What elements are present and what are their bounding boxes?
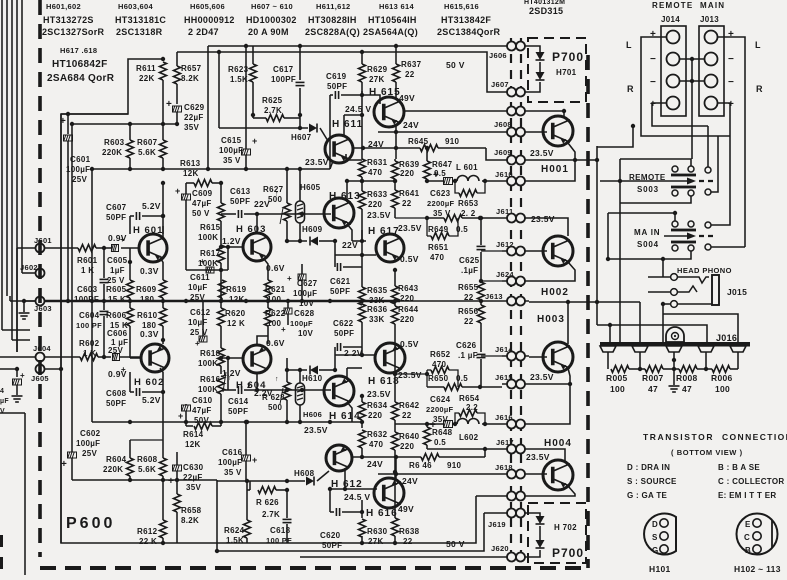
diode H702b [536, 540, 545, 548]
wire H602 collector [140, 329, 165, 344]
svg-text:12K: 12K [229, 295, 245, 304]
svg-text:R639: R639 [399, 160, 420, 169]
jack J015 [671, 274, 719, 308]
svg-text:C617: C617 [273, 65, 294, 74]
svg-text:+: + [287, 274, 292, 283]
capacitor C617 [271, 44, 305, 115]
resistor R632 [359, 430, 388, 449]
wire C610 row [183, 404, 223, 449]
svg-text:C624: C624 [430, 395, 451, 404]
wire H613 collector [330, 95, 349, 202]
wire H613 base [290, 212, 331, 216]
label 2.2V low [247, 383, 273, 398]
transistor H002 [543, 236, 573, 266]
svg-text:47µF: 47µF [192, 199, 212, 208]
svg-text:R611: R611 [136, 64, 156, 73]
capacitor C610 [178, 396, 213, 426]
resistor R639 [392, 159, 420, 181]
label H604 [236, 380, 266, 391]
svg-text:100K: 100K [198, 385, 218, 394]
wire J612 stub [481, 250, 502, 252]
resistor R643 [392, 268, 419, 304]
svg-text:35V: 35V [184, 123, 199, 132]
speaker strip lugs [600, 346, 746, 352]
svg-text:H102 ~ 113: H102 ~ 113 [734, 564, 781, 574]
speaker strip mount [666, 327, 684, 342]
label H001 [541, 164, 569, 175]
svg-text:35 V: 35 V [223, 156, 241, 165]
resistor R628 [262, 358, 291, 422]
resistor R608 [137, 440, 167, 482]
connector J612 [496, 240, 529, 256]
svg-text:C620: C620 [320, 531, 341, 540]
wire y490 row [247, 481, 289, 519]
svg-text:+: + [728, 99, 734, 110]
svg-text:23.5V: 23.5V [398, 223, 422, 233]
svg-text:+: + [252, 455, 258, 465]
wire left bends [0, 330, 36, 575]
svg-text:+: + [433, 170, 439, 181]
label 24V low [367, 459, 383, 469]
transistor H618 [375, 343, 405, 373]
wire H604 base [221, 356, 243, 378]
capacitor C604 [76, 301, 109, 357]
svg-text:H 702: H 702 [554, 523, 577, 532]
svg-text:+: + [60, 116, 66, 127]
resistor R636 [359, 301, 388, 324]
svg-text:4: 4 [0, 388, 4, 395]
svg-text:2.2: 2.2 [466, 403, 478, 412]
svg-text:R608: R608 [137, 455, 158, 464]
wire y114 [61, 57, 165, 114]
svg-text:100: 100 [715, 384, 730, 394]
svg-text:+: + [178, 411, 184, 421]
svg-text:22µF: 22µF [184, 113, 204, 122]
svg-text:H608: H608 [294, 469, 315, 478]
resistor R644 [392, 301, 419, 374]
svg-text:TRANSISTOR: TRANSISTOR [643, 432, 714, 442]
svg-text:R609: R609 [136, 285, 157, 294]
svg-text:H607: H607 [291, 133, 312, 142]
connector J620 [491, 544, 529, 562]
svg-text:HT313272S: HT313272S [43, 15, 94, 25]
switch S003 contacts [664, 166, 713, 196]
svg-text:R645: R645 [408, 137, 429, 146]
label legend E [718, 491, 776, 500]
svg-text:R657: R657 [181, 64, 202, 73]
capacitor C612 [188, 301, 211, 348]
wire speaker L feed [597, 124, 635, 147]
label H602 [134, 377, 164, 388]
svg-text:HT10564IH: HT10564IH [368, 15, 417, 25]
resistor R637 [393, 44, 422, 98]
svg-text:R621: R621 [265, 285, 286, 294]
wire H603 collector [255, 212, 290, 233]
transistor H615 [374, 97, 502, 127]
resistor R622 [265, 301, 286, 336]
svg-text:C611: C611 [190, 273, 210, 282]
svg-text:H 613: H 613 [329, 191, 361, 202]
resistor R646 [409, 449, 485, 470]
resistor R607 [137, 124, 167, 169]
svg-text:+: + [175, 186, 181, 196]
svg-text:R623: R623 [228, 65, 249, 74]
resistor R005 [606, 366, 629, 395]
label HEADPHONO [677, 266, 732, 275]
svg-text:R644: R644 [398, 305, 419, 314]
svg-text:50PF: 50PF [106, 213, 126, 222]
label legend C [718, 477, 784, 486]
svg-text:R 626: R 626 [256, 498, 279, 507]
svg-text:R619: R619 [226, 285, 247, 294]
svg-text:+: + [120, 235, 125, 244]
diode H701b [536, 72, 545, 80]
label H102 [734, 564, 781, 574]
label 49V low [398, 504, 414, 514]
inductor L601 [456, 163, 502, 183]
svg-text:+: + [650, 29, 656, 40]
svg-text:2SC1384QorR: 2SC1384QorR [437, 27, 501, 37]
svg-text:R634: R634 [367, 401, 388, 410]
svg-text:L 601: L 601 [456, 163, 478, 172]
svg-text:H 617: H 617 [368, 226, 400, 237]
resistor R616 [198, 372, 232, 404]
connector J602 [20, 263, 45, 278]
svg-text:J604: J604 [33, 344, 51, 353]
label H603 [236, 224, 266, 235]
svg-text:R625: R625 [262, 96, 283, 105]
svg-text:100 PF: 100 PF [266, 536, 292, 545]
connector J618 [495, 463, 529, 479]
resistor R603 [102, 124, 134, 169]
svg-text:22: 22 [405, 70, 415, 79]
svg-text:R618: R618 [200, 349, 221, 358]
svg-text:R008: R008 [676, 373, 698, 383]
svg-text:R602: R602 [79, 339, 100, 348]
svg-text:2SC1318R: 2SC1318R [116, 27, 163, 37]
resistor R623 [228, 46, 257, 115]
svg-text:J615: J615 [495, 373, 513, 382]
svg-text:MA IN: MA IN [634, 228, 660, 237]
svg-text:100: 100 [267, 295, 281, 304]
svg-text:J609: J609 [494, 148, 512, 157]
resistor R647 [424, 146, 453, 183]
svg-text:R605: R605 [106, 285, 127, 294]
transistor H601 [139, 234, 167, 262]
wire J616 left [395, 422, 435, 426]
svg-text:47: 47 [648, 384, 658, 394]
connector J605 [31, 365, 49, 384]
wire ground bus [44, 299, 502, 303]
label P600 [66, 515, 115, 532]
svg-text:−: − [728, 54, 734, 65]
label H614 [329, 411, 361, 422]
pinout H102 [737, 514, 778, 556]
svg-text:50PF: 50PF [106, 399, 126, 408]
label J014 [661, 15, 680, 24]
svg-text:22: 22 [464, 317, 474, 326]
svg-text:C616: C616 [222, 448, 243, 457]
dashed border right [586, 55, 590, 568]
svg-text:1.5K: 1.5K [226, 536, 244, 545]
svg-text:R647: R647 [432, 160, 453, 169]
svg-text:2SA564A(Q): 2SA564A(Q) [363, 27, 418, 37]
svg-text:0.6V: 0.6V [266, 338, 285, 348]
wire H614 base [290, 388, 331, 392]
wire H614 collector [347, 368, 362, 380]
label H618 [368, 376, 400, 387]
thermistor H606 [296, 370, 323, 424]
svg-text:2 2D47: 2 2D47 [188, 27, 219, 37]
dashed stub corner [0, 535, 3, 575]
svg-text:22: 22 [402, 411, 412, 420]
capacitor C602 [61, 429, 101, 480]
dashed border bottom [40, 566, 590, 570]
svg-text:100µF: 100µF [290, 319, 313, 328]
svg-text:47µF: 47µF [192, 406, 212, 415]
svg-text:HT106842F: HT106842F [52, 59, 108, 70]
svg-text:H611,612: H611,612 [316, 2, 351, 11]
svg-text:J611: J611 [496, 207, 513, 216]
jack J013 [699, 26, 724, 116]
svg-text:35 V: 35 V [224, 468, 242, 477]
resistor R656 [458, 301, 485, 330]
svg-text:C629: C629 [184, 103, 205, 112]
jack J014 [661, 26, 686, 116]
resistor R605 [106, 260, 134, 304]
resistor R650 [395, 372, 502, 391]
wire H004 collector [529, 449, 565, 461]
svg-text:R616: R616 [200, 375, 221, 384]
switch S004 label [634, 228, 660, 249]
wire J614 stub [481, 355, 502, 357]
svg-text:24V: 24V [403, 120, 419, 130]
svg-text:R636: R636 [367, 305, 388, 314]
svg-text:REMOTE: REMOTE [652, 1, 693, 10]
svg-text:C625: C625 [459, 256, 480, 265]
svg-text:24V: 24V [367, 459, 383, 469]
wire H004 base [529, 473, 547, 475]
svg-text:J616: J616 [495, 413, 513, 422]
svg-text:J612: J612 [496, 240, 514, 249]
label J016 [716, 333, 737, 343]
capacitor C608 [106, 372, 165, 408]
svg-text:( BOTTOM VIEW ): ( BOTTOM VIEW ) [671, 448, 743, 457]
transistor H616 [374, 478, 404, 508]
resistor R629 [359, 50, 388, 95]
label H612 [331, 479, 363, 490]
svg-text:15 K: 15 K [108, 295, 126, 304]
svg-text:2. 2: 2. 2 [461, 209, 476, 218]
svg-text:R655: R655 [458, 283, 479, 292]
wire S003 right [708, 126, 718, 192]
svg-text:C: C [744, 533, 750, 542]
wire S003 route [600, 159, 691, 343]
svg-text:1.5K: 1.5K [230, 75, 248, 84]
svg-text:50PF: 50PF [330, 287, 350, 296]
svg-text:J602: J602 [20, 263, 38, 272]
svg-text:100µF: 100µF [76, 439, 100, 448]
diode H608 [217, 469, 329, 486]
svg-text:P700: P700 [552, 546, 584, 560]
svg-text:R629: R629 [367, 65, 388, 74]
svg-text:↑: ↑ [275, 376, 279, 383]
svg-text:50PF: 50PF [334, 329, 354, 338]
svg-text:+: + [20, 371, 25, 380]
svg-text:22 K: 22 K [139, 537, 157, 546]
svg-text:220: 220 [400, 315, 414, 324]
svg-text:+: + [252, 136, 258, 146]
svg-text:H004: H004 [544, 438, 572, 449]
connector J604 [33, 344, 51, 362]
resistor R008 [676, 366, 698, 395]
svg-text:1µF: 1µF [110, 266, 125, 275]
svg-text:µF: µF [0, 398, 9, 405]
resistor R610 [137, 301, 167, 340]
capacitor C627 [287, 264, 318, 308]
svg-text:R630: R630 [367, 527, 388, 536]
svg-text:49V: 49V [399, 93, 415, 103]
resistor R651 [398, 218, 458, 262]
svg-text:49V: 49V [398, 504, 414, 514]
svg-text:C623: C623 [430, 189, 451, 198]
resistor R635 [359, 285, 388, 305]
connector pair b [502, 492, 529, 501]
svg-text:33K: 33K [369, 315, 385, 324]
connector J603 [34, 297, 52, 314]
svg-text:H617 .618: H617 .618 [60, 46, 97, 55]
label H002 [541, 287, 569, 298]
svg-text:470: 470 [368, 168, 382, 177]
resistor R611 [136, 62, 167, 124]
svg-text:C : COLLECTOR: C : COLLECTOR [718, 477, 784, 486]
wire x92 low [91, 301, 93, 422]
label H611 [332, 119, 363, 130]
label H617 [368, 226, 400, 237]
wire H613 emitter [347, 224, 352, 241]
resistor R655 [458, 279, 502, 302]
wire H616 base [330, 487, 377, 491]
wire down x208 [207, 46, 209, 169]
svg-text:5.2V: 5.2V [142, 201, 161, 211]
wire H603 emitter [264, 259, 268, 275]
svg-text:0.3V: 0.3V [140, 329, 159, 339]
svg-text:2SC1327SorR: 2SC1327SorR [42, 27, 105, 37]
wire H003 collector [529, 300, 640, 344]
svg-text:R604: R604 [106, 455, 127, 464]
label P700 bottom [552, 546, 584, 560]
svg-text:22: 22 [402, 199, 412, 208]
svg-text:S003: S003 [637, 185, 659, 194]
svg-text:R007: R007 [642, 373, 664, 383]
svg-text:0.5V: 0.5V [400, 339, 419, 349]
label H615 [369, 87, 401, 98]
svg-text:H 601: H 601 [133, 225, 163, 236]
connector J617 [496, 438, 529, 454]
svg-text:H002: H002 [541, 287, 569, 298]
svg-text:0.3V: 0.3V [140, 266, 159, 276]
switch S003 label [629, 173, 666, 194]
wire H001 emitter [529, 143, 599, 325]
svg-text:J013: J013 [700, 15, 719, 24]
svg-text:C613: C613 [230, 187, 251, 196]
wire H004 emitter [300, 486, 575, 557]
svg-text:J618: J618 [495, 463, 513, 472]
wire H617 base [335, 239, 376, 257]
svg-text:R650: R650 [428, 374, 449, 383]
resistor R619 [219, 280, 247, 304]
svg-text:50 V: 50 V [446, 539, 465, 549]
resistor R642 [392, 372, 420, 422]
svg-text:23.5V: 23.5V [367, 389, 391, 399]
svg-text:CONNECTION: CONNECTION [722, 432, 787, 442]
wire H602 emitter [130, 340, 163, 372]
wire H003 base [529, 356, 547, 358]
resistor R602 [44, 339, 111, 361]
resistor R618 [198, 348, 225, 374]
svg-text:22K: 22K [139, 74, 155, 83]
wire 24V rail [346, 154, 362, 160]
svg-text:8.2K: 8.2K [181, 74, 199, 83]
svg-text:H603,604: H603,604 [118, 2, 153, 11]
wire H002 base [529, 250, 547, 252]
transistor H001 [543, 116, 573, 146]
svg-text:R615: R615 [200, 223, 221, 232]
svg-text:J608: J608 [494, 120, 512, 129]
svg-text:−: − [650, 77, 656, 88]
svg-text:MAIN: MAIN [700, 1, 725, 10]
label 24V J618 [402, 476, 418, 486]
svg-text:H606: H606 [303, 410, 322, 419]
ground speaker [669, 358, 680, 392]
svg-text:35V: 35V [186, 483, 201, 492]
label transistor connection [643, 432, 787, 442]
svg-text:H 602: H 602 [134, 377, 164, 388]
svg-text:R603: R603 [104, 138, 125, 147]
svg-text:R620: R620 [225, 309, 246, 318]
resistor R624 [224, 481, 251, 545]
wire rail x72 [71, 124, 73, 452]
capacitor C618 [266, 490, 292, 545]
svg-text:D: D [652, 520, 658, 529]
svg-text:0.5V: 0.5V [400, 254, 419, 264]
svg-text:S004: S004 [637, 240, 659, 249]
svg-text:+: + [430, 420, 436, 431]
label H004 [544, 438, 572, 449]
capacitor C603 [74, 248, 109, 304]
svg-text:J015: J015 [727, 287, 747, 297]
svg-text:+: + [281, 325, 286, 334]
svg-text:10V: 10V [298, 329, 313, 338]
svg-text:10µF: 10µF [188, 318, 208, 327]
svg-text:24V: 24V [402, 476, 418, 486]
svg-text:2.7K: 2.7K [264, 106, 282, 115]
resistor R601 [44, 245, 111, 276]
svg-text:H 611: H 611 [332, 119, 363, 130]
svg-text:C610: C610 [192, 396, 213, 405]
svg-text:J620: J620 [491, 544, 509, 553]
svg-text:910: 910 [445, 137, 459, 146]
label 0.6V low [266, 338, 285, 348]
resistor R613 [180, 159, 221, 187]
svg-text:+: + [728, 29, 734, 40]
svg-text:R658: R658 [181, 506, 202, 515]
wire J603 feed [10, 296, 36, 301]
wire 24V rail low [378, 473, 502, 475]
capacitor C620 [320, 487, 364, 550]
svg-text:C626: C626 [456, 341, 477, 350]
wire P600 left border [61, 114, 476, 543]
